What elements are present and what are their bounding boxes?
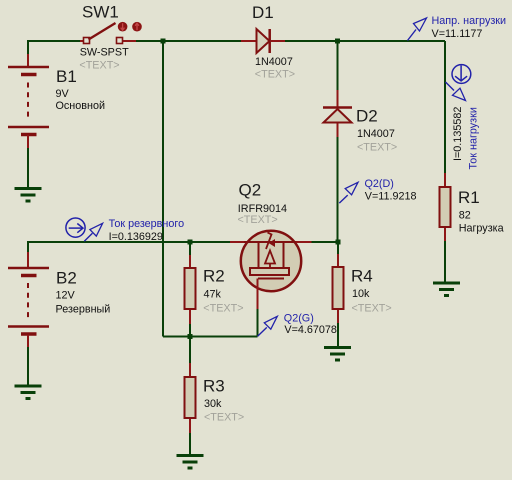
switch SW1 — [80, 22, 142, 44]
wire R4 to ground — [337, 322, 339, 346]
wire R2 bottom — [189, 323, 191, 337]
wire Q2 gate drop — [257, 308, 259, 337]
resistor R2 — [185, 255, 196, 324]
transistor Q2 (P-MOSFET IRFR9014) — [230, 231, 312, 309]
node junction R2 top — [188, 240, 193, 245]
resistor R4 — [333, 254, 344, 323]
wire SW1 output vertical drop x=163 — [162, 41, 164, 337]
voltage probe pointer Q2(G) — [258, 316, 278, 336]
svg-text:Резервный: Резервный — [56, 304, 111, 316]
ground of R3 — [177, 456, 204, 469]
svg-text:1N4007: 1N4007 — [357, 128, 395, 140]
resistor R3 — [185, 363, 196, 433]
svg-text:Ток нагрузки: Ток нагрузки — [468, 107, 480, 169]
wire top rail mid (SW1 to D1) — [136, 40, 241, 42]
svg-text:I=0.136929: I=0.136929 — [109, 231, 163, 243]
svg-text:I=0.135582: I=0.135582 — [452, 107, 464, 161]
svg-text:V=11.9218: V=11.9218 — [365, 191, 417, 203]
node junction drain — [336, 240, 341, 245]
ground of R4 — [324, 348, 351, 361]
probe pointer Ток резервного — [84, 223, 102, 241]
svg-text:47k: 47k — [204, 288, 222, 300]
svg-text:1N4007: 1N4007 — [255, 56, 293, 68]
voltage probe pointer Q2(D) — [339, 182, 358, 203]
resistor R1 — [440, 173, 451, 241]
svg-text:B2: B2 — [56, 268, 77, 287]
svg-text:Напр. нагрузки: Напр. нагрузки — [432, 15, 507, 27]
diode D1 — [241, 29, 285, 53]
svg-text:Основной: Основной — [56, 100, 106, 112]
svg-text:R4: R4 — [351, 267, 373, 286]
wire node to R4 — [337, 242, 339, 256]
ground of R1 — [433, 283, 460, 296]
svg-text:Ток резервного: Ток резервного — [109, 218, 185, 230]
wire D2 to drain node — [337, 136, 339, 242]
wire B1 bottom to ground — [27, 147, 29, 188]
node junction top-left x=163 — [161, 39, 166, 44]
svg-text:Q2(G): Q2(G) — [284, 312, 314, 324]
wire top rail left (B1 to SW1) — [28, 40, 80, 42]
svg-text:SW1: SW1 — [82, 3, 119, 22]
svg-text:<TEXT>: <TEXT> — [238, 214, 278, 226]
svg-text:<TEXT>: <TEXT> — [79, 60, 119, 72]
svg-text:<TEXT>: <TEXT> — [255, 68, 295, 80]
svg-text:B1: B1 — [56, 67, 77, 86]
svg-text:V=11.1177: V=11.1177 — [432, 28, 483, 40]
svg-text:<TEXT>: <TEXT> — [352, 302, 392, 314]
wire R3 bottom to ground — [189, 432, 191, 455]
wire R1 to ground — [444, 241, 446, 282]
svg-text:30k: 30k — [204, 398, 222, 410]
voltage probe pointer Напр. нагрузки — [408, 18, 427, 41]
svg-text:R2: R2 — [203, 266, 225, 285]
wire top rail right (D1 to R1 corner) — [285, 40, 445, 42]
svg-text:82: 82 — [459, 209, 471, 221]
wire D2 branch from top rail — [337, 41, 339, 91]
wire B2 rail y=242 — [28, 241, 230, 243]
svg-text:R3: R3 — [203, 377, 225, 396]
wire B2 top drop — [27, 241, 29, 253]
svg-text:D2: D2 — [356, 106, 378, 125]
wire R2 top — [189, 242, 191, 256]
svg-text:Q2: Q2 — [239, 180, 262, 199]
svg-text:SW-SPST: SW-SPST — [80, 46, 129, 58]
battery B1 — [8, 54, 49, 148]
svg-text:<TEXT>: <TEXT> — [204, 411, 244, 423]
svg-text:<TEXT>: <TEXT> — [357, 141, 397, 153]
wire B1 top drop — [27, 40, 29, 55]
wire Q2 drain to node — [311, 241, 338, 243]
wire B2 bottom to ground — [27, 346, 29, 386]
svg-text:D1: D1 — [252, 3, 274, 22]
svg-text:R1: R1 — [458, 188, 480, 207]
ground of B2 — [15, 386, 42, 399]
node junction top D2 branch — [335, 39, 340, 44]
svg-text:V=4.67078: V=4.67078 — [284, 324, 337, 336]
battery B2 — [8, 252, 49, 347]
current probe Ток резервного (circle with right arrow) — [66, 218, 85, 237]
svg-text:Нагрузка: Нагрузка — [459, 223, 504, 235]
svg-text:9V: 9V — [56, 88, 70, 100]
ground of B1 — [15, 189, 42, 202]
node junction R2/R3 gate — [188, 334, 193, 339]
wire right drop to R1 — [444, 41, 446, 174]
wire gate rail y=336.5 — [163, 336, 258, 338]
probe pointer Ток нагрузки — [446, 82, 466, 101]
wire R3 top — [189, 337, 191, 365]
svg-text:12V: 12V — [56, 290, 76, 302]
current probe Ток нагрузки (circle with down arrow) — [452, 65, 471, 84]
svg-text:Q2(D): Q2(D) — [365, 178, 394, 190]
svg-text:10k: 10k — [352, 288, 370, 300]
diode D2 — [323, 90, 352, 137]
svg-text:<TEXT>: <TEXT> — [203, 303, 243, 315]
